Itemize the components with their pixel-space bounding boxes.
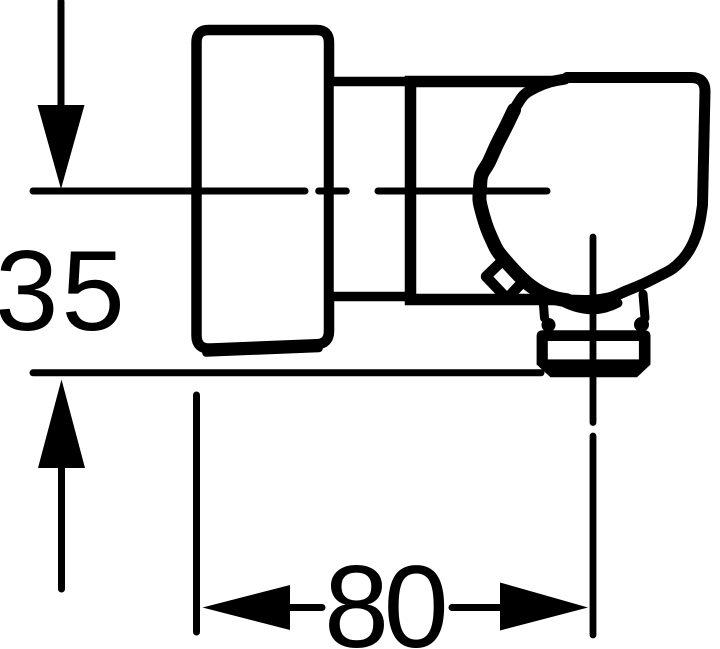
wall plate bottom thick edge: [206, 349, 319, 354]
dim 80 right arrow head: [500, 583, 588, 631]
collar right bulge: [634, 317, 649, 332]
collar left bulge: [542, 318, 556, 332]
handle body (egg shape): [479, 78, 705, 301]
dim 80 left line: [289, 604, 322, 611]
dim 80 left arrow head: [203, 585, 291, 630]
body rect 1: [329, 82, 412, 297]
hose union nut: [537, 330, 651, 377]
svg-text:35: 35: [0, 228, 128, 355]
handle body left arc thick overlay: [479, 110, 567, 300]
body rect 2: [411, 82, 601, 300]
dim 80 extension line: [193, 395, 200, 632]
svg-text:80: 80: [324, 541, 445, 649]
collar right side: [643, 294, 645, 318]
vertical center line (chain): [590, 237, 597, 635]
diverter diamond: [486, 259, 524, 299]
nut white window: [548, 341, 639, 359]
dim 35 bottom reference line: [33, 369, 541, 376]
dim 35 up arrow line: [58, 466, 65, 589]
handle body bottom blob: [558, 300, 618, 310]
wall plate (escutcheon): [197, 30, 330, 349]
dim 35 up arrow head: [38, 380, 85, 469]
dim 80 right line: [452, 604, 500, 611]
horizontal center line (chain): [33, 188, 547, 195]
collar left side: [543, 292, 545, 318]
dim 35 down arrow line: [58, 2, 65, 108]
dim 35 down arrow head: [38, 105, 85, 189]
